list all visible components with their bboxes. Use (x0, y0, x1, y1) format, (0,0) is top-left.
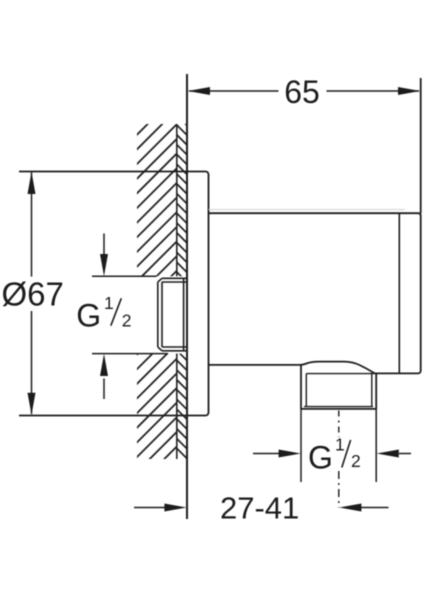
svg-text:G: G (308, 440, 333, 476)
wall plaster layer hatch (dense chevron lines at wall face) (176, 115, 189, 461)
dimension 65: left arrowhead (188, 87, 210, 95)
dimension G 1/2 (bottom nipple): right extension line (375, 409, 377, 482)
svg-text:65: 65 (284, 74, 320, 110)
nipple centre line (dash-dot, interrupted by text) (338, 411, 340, 438)
faint silhouette line above cup top edge (209, 209, 406, 211)
dimension G 1/2 (left socket): bottom extension line (92, 353, 168, 355)
dimension Ø67: top arrowhead (28, 172, 36, 194)
outlet nipple inner thread lines (304, 374, 374, 407)
svg-text:2: 2 (122, 311, 132, 331)
dimension G 1/2 (bottom): fraction slash (342, 440, 351, 468)
dimension G 1/2 (bottom nipple): left extension line (300, 409, 302, 482)
dimension G 1/2 (left socket): top extension line (92, 275, 157, 277)
svg-text:1: 1 (104, 293, 114, 313)
svg-text:1: 1 (335, 435, 345, 455)
svg-text:27-41: 27-41 (220, 491, 299, 526)
body cup outline (209, 213, 421, 373)
dimension 65: right extension line (420, 78, 422, 214)
dimension 27-41: right arrow pointing left at centre line (361, 507, 389, 509)
wall layer boundary line (176, 124, 178, 459)
dimension G 1/2 (left): lower leader arrow pointing up (103, 379, 105, 400)
dimension G 1/2 (bottom): right arrow pointing left (399, 453, 411, 455)
dimension 65 (top): dimension line with gap for text (189, 90, 419, 92)
dimension 65: right arrowhead (398, 87, 420, 95)
dimension G 1/2 (left): fraction slash (111, 298, 122, 325)
wall hatch (masonry, 45-degree lines) (0, 114, 424, 465)
wall face line (also 65-dim left extension and 27-41 reference) (186, 74, 188, 519)
dimension G 1/2 (bottom): left arrow pointing right (253, 453, 280, 455)
dimension 27-41: left arrow pointing right at wall face (134, 507, 166, 509)
body end-cap inner line (398, 213, 400, 373)
svg-text:G: G (76, 298, 101, 334)
outlet nipple G1/2 outline (301, 365, 376, 409)
svg-text:2: 2 (351, 451, 361, 471)
dimension Ø67: bottom arrowhead (28, 393, 36, 415)
escutcheon flange Ø67 side profile (19, 172, 209, 416)
dimension Ø67 (left): dimension line with gap for text (31, 173, 33, 415)
svg-text:Ø67: Ø67 (2, 276, 64, 313)
female inlet socket G1/2 (inside wall) (158, 278, 188, 351)
dimension G 1/2 (left): upper leader arrow pointing down (103, 234, 105, 255)
